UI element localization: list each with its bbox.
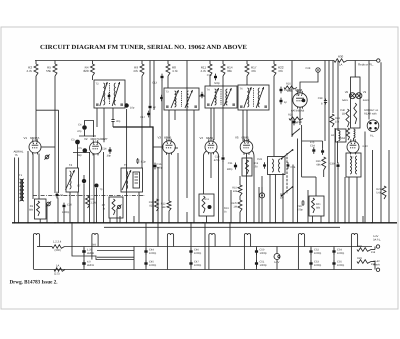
wire V6 stem (301, 125, 303, 141)
capacitor C44 1000p (145, 248, 147, 255)
wire vertical (149, 110, 151, 127)
wire vertical (320, 216, 322, 223)
wire heater legs (209, 241, 215, 270)
pilot lamp (274, 254, 280, 260)
resistor R24 (346, 128, 349, 140)
wire below R5 (54, 76, 56, 193)
junction dot (261, 222, 263, 224)
wire feed 7 (204, 247, 206, 270)
wire vertical (258, 187, 260, 223)
svg-text:1000p: 1000p (314, 252, 322, 255)
heater V3 filament (167, 234, 173, 241)
svg-text:1B: 1B (342, 113, 345, 116)
wire vertical (337, 61, 339, 132)
wire bus tick (119, 216, 121, 223)
wire bold AVC feed (113, 127, 153, 223)
wire V5 skirt (252, 151, 254, 224)
jack AF output (259, 193, 264, 198)
tube V4 6BA6 (205, 141, 217, 153)
svg-text:1000p: 1000p (62, 211, 70, 214)
resistor R8 4.7k (167, 61, 169, 65)
wire jack to ratio box (261, 176, 263, 193)
wire V3 top to T3 (168, 110, 170, 141)
wire cap leg2 (145, 247, 147, 270)
wire vertical (388, 150, 390, 223)
svg-text:600: 600 (92, 244, 97, 247)
heater V2 filament (92, 234, 98, 241)
svg-text:C34: C34 (310, 145, 315, 148)
transformer T4 coil (66, 168, 79, 192)
terminal P.L. feed (377, 59, 380, 62)
wire aerial feeder left (14, 158, 16, 224)
test point jack (316, 68, 320, 72)
junction dot (152, 222, 154, 224)
svg-text:47k: 47k (251, 69, 256, 73)
wire T2 into V2 grid (96, 108, 98, 127)
wire L9 to V7 (353, 138, 355, 141)
switch gang dash link (286, 153, 288, 194)
wire vertical (149, 61, 151, 105)
svg-text:6BQ7A/6BZ7: 6BQ7A/6BZ7 (91, 137, 108, 141)
svg-text:1000p: 1000p (337, 264, 345, 267)
svg-text:1000p: 1000p (149, 252, 157, 255)
resistor fuse 1A (54, 268, 65, 272)
wire heater legs (167, 241, 173, 270)
svg-text:8.2p: 8.2p (141, 161, 147, 164)
junction dot (126, 222, 128, 224)
wire below R11 (209, 76, 211, 86)
wire HT+ top bus (35, 60, 334, 62)
svg-text:1M: 1M (280, 196, 284, 199)
capacitor C22a blob (280, 98, 282, 105)
capacitor C6 in T2 (108, 93, 110, 100)
wire vertical (186, 212, 188, 223)
trimmer C2 (45, 155, 49, 159)
switch arm S1c (292, 129, 300, 136)
wire vertical (282, 173, 284, 223)
svg-text:470p: 470p (214, 159, 220, 162)
svg-text:C21: C21 (228, 162, 233, 165)
wire below R9 (141, 76, 143, 168)
svg-text:6X4: 6X4 (340, 136, 345, 140)
svg-text:440p: 440p (157, 167, 163, 170)
resistor R6 2.2M (86, 196, 90, 208)
wire feed 6 (145, 223, 147, 247)
wire vertical (334, 128, 336, 223)
resistor left of rectifier box (346, 109, 349, 127)
svg-text:C14: C14 (102, 148, 107, 151)
resistor R9 47k (141, 61, 143, 65)
svg-text:C13: C13 (152, 82, 157, 85)
svg-text:820: 820 (83, 69, 88, 73)
resistor R27 5.6k (382, 186, 386, 199)
svg-text:1000p: 1000p (194, 264, 202, 267)
wire vertical (380, 62, 382, 223)
svg-text:82p: 82p (77, 154, 82, 157)
wire V4 top to T5 (210, 108, 212, 142)
heater V1 filament (33, 234, 39, 241)
wire vertical (126, 196, 128, 224)
capacitor C6a (56, 192, 58, 199)
wire jack down to anode line (300, 72, 318, 93)
svg-text:68k: 68k (316, 163, 321, 166)
svg-text:CIRCUIT DIAGRAM FM TUNER, SERI: CIRCUIT DIAGRAM FM TUNER, SERIAL NO. 190… (40, 44, 247, 51)
svg-text:C23: C23 (257, 158, 262, 161)
switch S1 contact lower (281, 187, 293, 197)
connector socket 4-pin (367, 120, 379, 132)
trimmer C9 (47, 202, 51, 206)
rectifier V9 (356, 93, 362, 99)
junction dot (344, 222, 346, 224)
wire vertical (230, 190, 232, 223)
wire bus to PL terminal (347, 60, 377, 62)
junction dot (275, 222, 277, 224)
svg-text:1A: 1A (339, 63, 343, 67)
wire heater legs (298, 241, 304, 270)
wire bus tick (362, 216, 364, 223)
svg-text:C38: C38 (318, 97, 323, 100)
power transformer T7 box (346, 153, 361, 177)
wire V5 down (246, 153, 248, 223)
wire output frame (133, 247, 135, 270)
svg-text:1000p: 1000p (149, 264, 157, 267)
capacitor C16 440p (154, 163, 156, 170)
choke L8 boxed (336, 129, 347, 142)
wire vertical (186, 61, 188, 199)
wire cap leg3 (190, 247, 192, 270)
svg-text:R28: R28 (357, 245, 362, 248)
svg-text:4MFD: 4MFD (87, 264, 94, 267)
junction dot (27, 222, 29, 224)
svg-text:1000p: 1000p (194, 252, 202, 255)
resistor inside rectifier box (354, 103, 357, 124)
svg-text:1000p: 1000p (314, 264, 322, 267)
wire pilot leads (276, 247, 278, 254)
wire heater line lower (34, 269, 372, 271)
junction dot (54, 222, 56, 224)
svg-text:1A: 1A (56, 265, 59, 268)
capacitor C46 1000p (190, 248, 192, 255)
svg-text:6AL5: 6AL5 (342, 99, 349, 102)
wire vertical (153, 61, 155, 111)
resistor R24b horizontal (289, 117, 303, 120)
resistor R17 47k (246, 61, 248, 65)
wire R15 chain (239, 176, 241, 185)
resistor R25 horizontal (284, 86, 297, 89)
junction dot (14, 222, 16, 224)
svg-text:R13: R13 (205, 198, 210, 201)
heater V7 filament (351, 234, 357, 241)
svg-text:C3: C3 (71, 139, 75, 142)
svg-text:C4: C4 (78, 124, 82, 127)
resistor R2 4.7k (35, 61, 37, 65)
svg-text:4MFD: 4MFD (87, 252, 94, 255)
wire V5 top to T6 (246, 110, 248, 143)
svg-text:C19: C19 (284, 89, 289, 92)
junction dot (83, 222, 85, 224)
wire vertical (269, 175, 271, 224)
transformer T1 aerial coil (20, 179, 22, 201)
wire 6.3V feed from bus (71, 223, 73, 247)
svg-text:6.3V: 6.3V (363, 145, 369, 148)
svg-text:470p: 470p (297, 208, 303, 211)
ratio detector transformer box (268, 157, 286, 175)
resistor R14 33k (222, 61, 224, 65)
resistor ballast 300 ohm (52, 245, 65, 249)
wire heater leg V1 (39, 241, 41, 247)
svg-text:Reds or P.L.: Reds or P.L. (358, 62, 374, 66)
wire feed 4 (157, 223, 159, 247)
junction dot (202, 222, 204, 224)
wire vertical (332, 61, 334, 114)
svg-text:C28: C28 (306, 67, 311, 70)
wire cap leg5 (310, 247, 312, 270)
capacitor C13 feedthrough (161, 74, 163, 81)
wire vertical (261, 187, 263, 223)
resistor R29 (357, 260, 371, 264)
capacitor C15 500p (215, 74, 217, 81)
capacitor C14 39p (109, 147, 111, 154)
wire output stub upper (97, 250, 134, 252)
svg-text:15k: 15k (335, 120, 340, 123)
junction dot (371, 222, 373, 224)
wire bus tick (133, 216, 135, 223)
svg-text:500p: 500p (214, 82, 220, 85)
wire T3 link to T5 (199, 95, 205, 97)
wire V3 grid to feed (153, 146, 164, 148)
wire chassis bus main (12, 222, 397, 224)
wire vertical (103, 152, 105, 223)
wire V4 skirt right (215, 151, 218, 223)
capacitor C24 (287, 162, 289, 169)
wire feed 2 (204, 223, 206, 247)
wire C4 to V2 grid (85, 121, 94, 138)
svg-text:1.2.3.4: 1.2.3.4 (53, 241, 62, 244)
wire feed 3 (229, 223, 231, 247)
svg-text:1M: 1M (296, 93, 300, 96)
wire V6 net frame (302, 140, 323, 142)
svg-text:4.7k: 4.7k (172, 69, 178, 73)
resistor box V2 cathode (109, 197, 123, 218)
capacitor C4 47p (82, 125, 87, 130)
svg-text:C6: C6 (60, 194, 64, 197)
wire vertical (57, 198, 59, 224)
wire vertical (126, 109, 128, 196)
transformer T6 3rd IF (238, 85, 269, 110)
svg-text:T5: T5 (124, 164, 128, 167)
junction dot (229, 222, 231, 224)
wire corner R2 to node (36, 109, 59, 111)
transformer T3 1st IF (164, 88, 199, 110)
svg-text:P.L.: P.L. (370, 135, 375, 138)
resistor R3 box cathode (35, 199, 47, 219)
wire heater ladder left frame (32, 241, 34, 270)
capacitor C18 (222, 155, 224, 162)
wire T6 out (242, 110, 244, 141)
capacitor C51 1000p (256, 260, 258, 267)
heater V4 filament (209, 234, 215, 241)
wire vertical (307, 190, 309, 223)
wire below R4 into T2 (92, 76, 94, 80)
svg-text:47k: 47k (133, 69, 138, 73)
wire V4 box stem (206, 216, 208, 223)
capacitor C34 47p (313, 147, 315, 154)
resistor R22 47k (273, 61, 275, 65)
tube V3 6BH6 (163, 141, 176, 154)
junction dot (356, 222, 358, 224)
svg-text:C20: C20 (297, 121, 302, 124)
svg-text:R24: R24 (288, 114, 293, 117)
capacitor C50 1000p (256, 248, 258, 255)
wire vertical (157, 167, 159, 223)
gang tuning dash-dot line (33, 195, 145, 197)
wire heater line mid stepped (72, 247, 134, 260)
svg-text:6BH6: 6BH6 (164, 136, 172, 140)
capacitor C17 blob (148, 111, 150, 118)
svg-text:R30: R30 (338, 55, 344, 59)
wire V3 anode (174, 147, 178, 149)
wire V1 cathode down (27, 151, 29, 223)
wire vertical (77, 192, 79, 223)
svg-text:(300): (300) (55, 249, 61, 252)
wire ratio det down (274, 175, 276, 224)
svg-text:22k: 22k (233, 190, 238, 193)
svg-text:SOCKET on: SOCKET on (364, 109, 379, 112)
wire below R14 (222, 76, 224, 156)
svg-text:10p: 10p (130, 107, 135, 110)
heater V6 filament (298, 234, 304, 241)
wire vertical (324, 61, 326, 142)
svg-text:V3: V3 (157, 136, 161, 140)
capacitor C45 1000p (145, 260, 147, 267)
svg-text:6AT8/6BN8: 6AT8/6BN8 (291, 110, 305, 113)
choke L9 (354, 129, 356, 138)
wire secondary bus (104, 226, 340, 228)
capacitor C39 (337, 162, 339, 169)
svg-text:6AL5: 6AL5 (363, 99, 370, 102)
wire V3 down (168, 153, 170, 201)
svg-text:REAR with: REAR with (364, 113, 377, 116)
resistor R16 box (242, 158, 252, 176)
svg-text:V4: V4 (199, 136, 203, 140)
junction dot (328, 222, 330, 224)
svg-text:1000p: 1000p (260, 264, 268, 267)
svg-text:82k: 82k (149, 205, 154, 208)
transformer T5 2nd IF (205, 86, 237, 108)
resistor R30 1A (334, 59, 347, 63)
wire vertical (89, 152, 91, 223)
tall box metal rectifier assembly (351, 77, 361, 128)
svg-text:C7: C7 (77, 185, 81, 188)
wire T3 out (174, 110, 176, 120)
wire C3 down (77, 144, 79, 168)
svg-text:56k: 56k (161, 206, 166, 209)
svg-text:C15: C15 (207, 74, 212, 77)
resistor R12 56k (167, 201, 171, 211)
wire vertical (109, 218, 111, 223)
svg-text:T4: T4 (69, 164, 73, 167)
wire to terminals (371, 249, 375, 251)
wire vertical (161, 80, 163, 223)
svg-text:60mA: 60mA (373, 263, 380, 266)
capacitor C3 (75, 140, 80, 145)
wire R3 box stem (39, 219, 41, 223)
wire heater legs V2 (92, 241, 98, 260)
wire vertical (138, 192, 140, 223)
svg-text:(2.5): (2.5) (54, 273, 60, 276)
capacitor C38 bypass (325, 99, 327, 105)
resistor R5 55k (54, 61, 56, 65)
capacitor C12 4p (149, 104, 151, 111)
wire V6 internal cap blob (302, 99, 306, 103)
svg-text:V1: V1 (23, 136, 27, 140)
wire grid node h (79, 135, 96, 137)
capacitor C20 (293, 119, 295, 126)
svg-text:6BQ7A: 6BQ7A (30, 136, 39, 140)
wire cap leg4 (256, 247, 258, 270)
capacitor C48 4MFD (83, 248, 85, 255)
capacitor C53 1000p (310, 260, 312, 267)
wire cap leg6 (333, 247, 335, 270)
svg-text:47p: 47p (310, 141, 315, 144)
tube V2 6BQ7A/6BZ7 (90, 142, 102, 154)
capacitor C10 1000p (63, 203, 65, 210)
wire below R8 (167, 76, 169, 88)
svg-text:Drwg. B14783 Issue 2.: Drwg. B14783 Issue 2. (10, 280, 59, 286)
resistor R15 22k (238, 185, 242, 196)
wire heater line upper (37, 246, 52, 248)
tube V7 6X4 rectifier (347, 141, 359, 153)
capacitor C21 180p (235, 163, 237, 170)
capacitor C15b 8.2p (137, 158, 139, 164)
wire V7 heater leads (348, 177, 350, 223)
svg-text:47k: 47k (278, 69, 283, 73)
resistor R4 820 (92, 61, 94, 65)
wire C4 down (84, 130, 86, 136)
resistor R11 4.7k (209, 61, 211, 65)
wire vertical (354, 61, 356, 78)
wire V1 pins to R3 box (32, 154, 34, 200)
trimmer C11 (117, 205, 120, 208)
rectifier V8 (349, 93, 355, 99)
svg-text:4.7k: 4.7k (26, 69, 32, 73)
transformer T5b oscillator coil (121, 168, 143, 192)
svg-text:1000p: 1000p (260, 252, 268, 255)
junction dot (246, 222, 248, 224)
svg-text:15k: 15k (371, 251, 376, 254)
wire V2 anode down (93, 154, 95, 224)
wire vertical (96, 188, 98, 223)
capacitor C30 470p (302, 200, 304, 206)
wire vertical (364, 132, 366, 224)
capacitor C23 (264, 162, 266, 169)
wire below R2 (35, 76, 37, 110)
wire choke L8 down (337, 141, 339, 163)
svg-text:V6: V6 (288, 88, 292, 92)
resistor R28 (357, 248, 371, 252)
resistor R21 box (309, 196, 324, 216)
wire V4 skirt left (204, 151, 207, 194)
resistor R15b (238, 200, 242, 212)
capacitor C7a blob (95, 184, 99, 188)
svg-text:V5: V5 (235, 136, 239, 140)
capacitor C55 1000p (333, 260, 335, 267)
junction dot (310, 222, 312, 224)
wire vertical (69, 192, 71, 223)
capacitor C19 (280, 87, 282, 94)
svg-text:1M: 1M (233, 206, 237, 209)
svg-text:V8: V8 (345, 91, 349, 94)
